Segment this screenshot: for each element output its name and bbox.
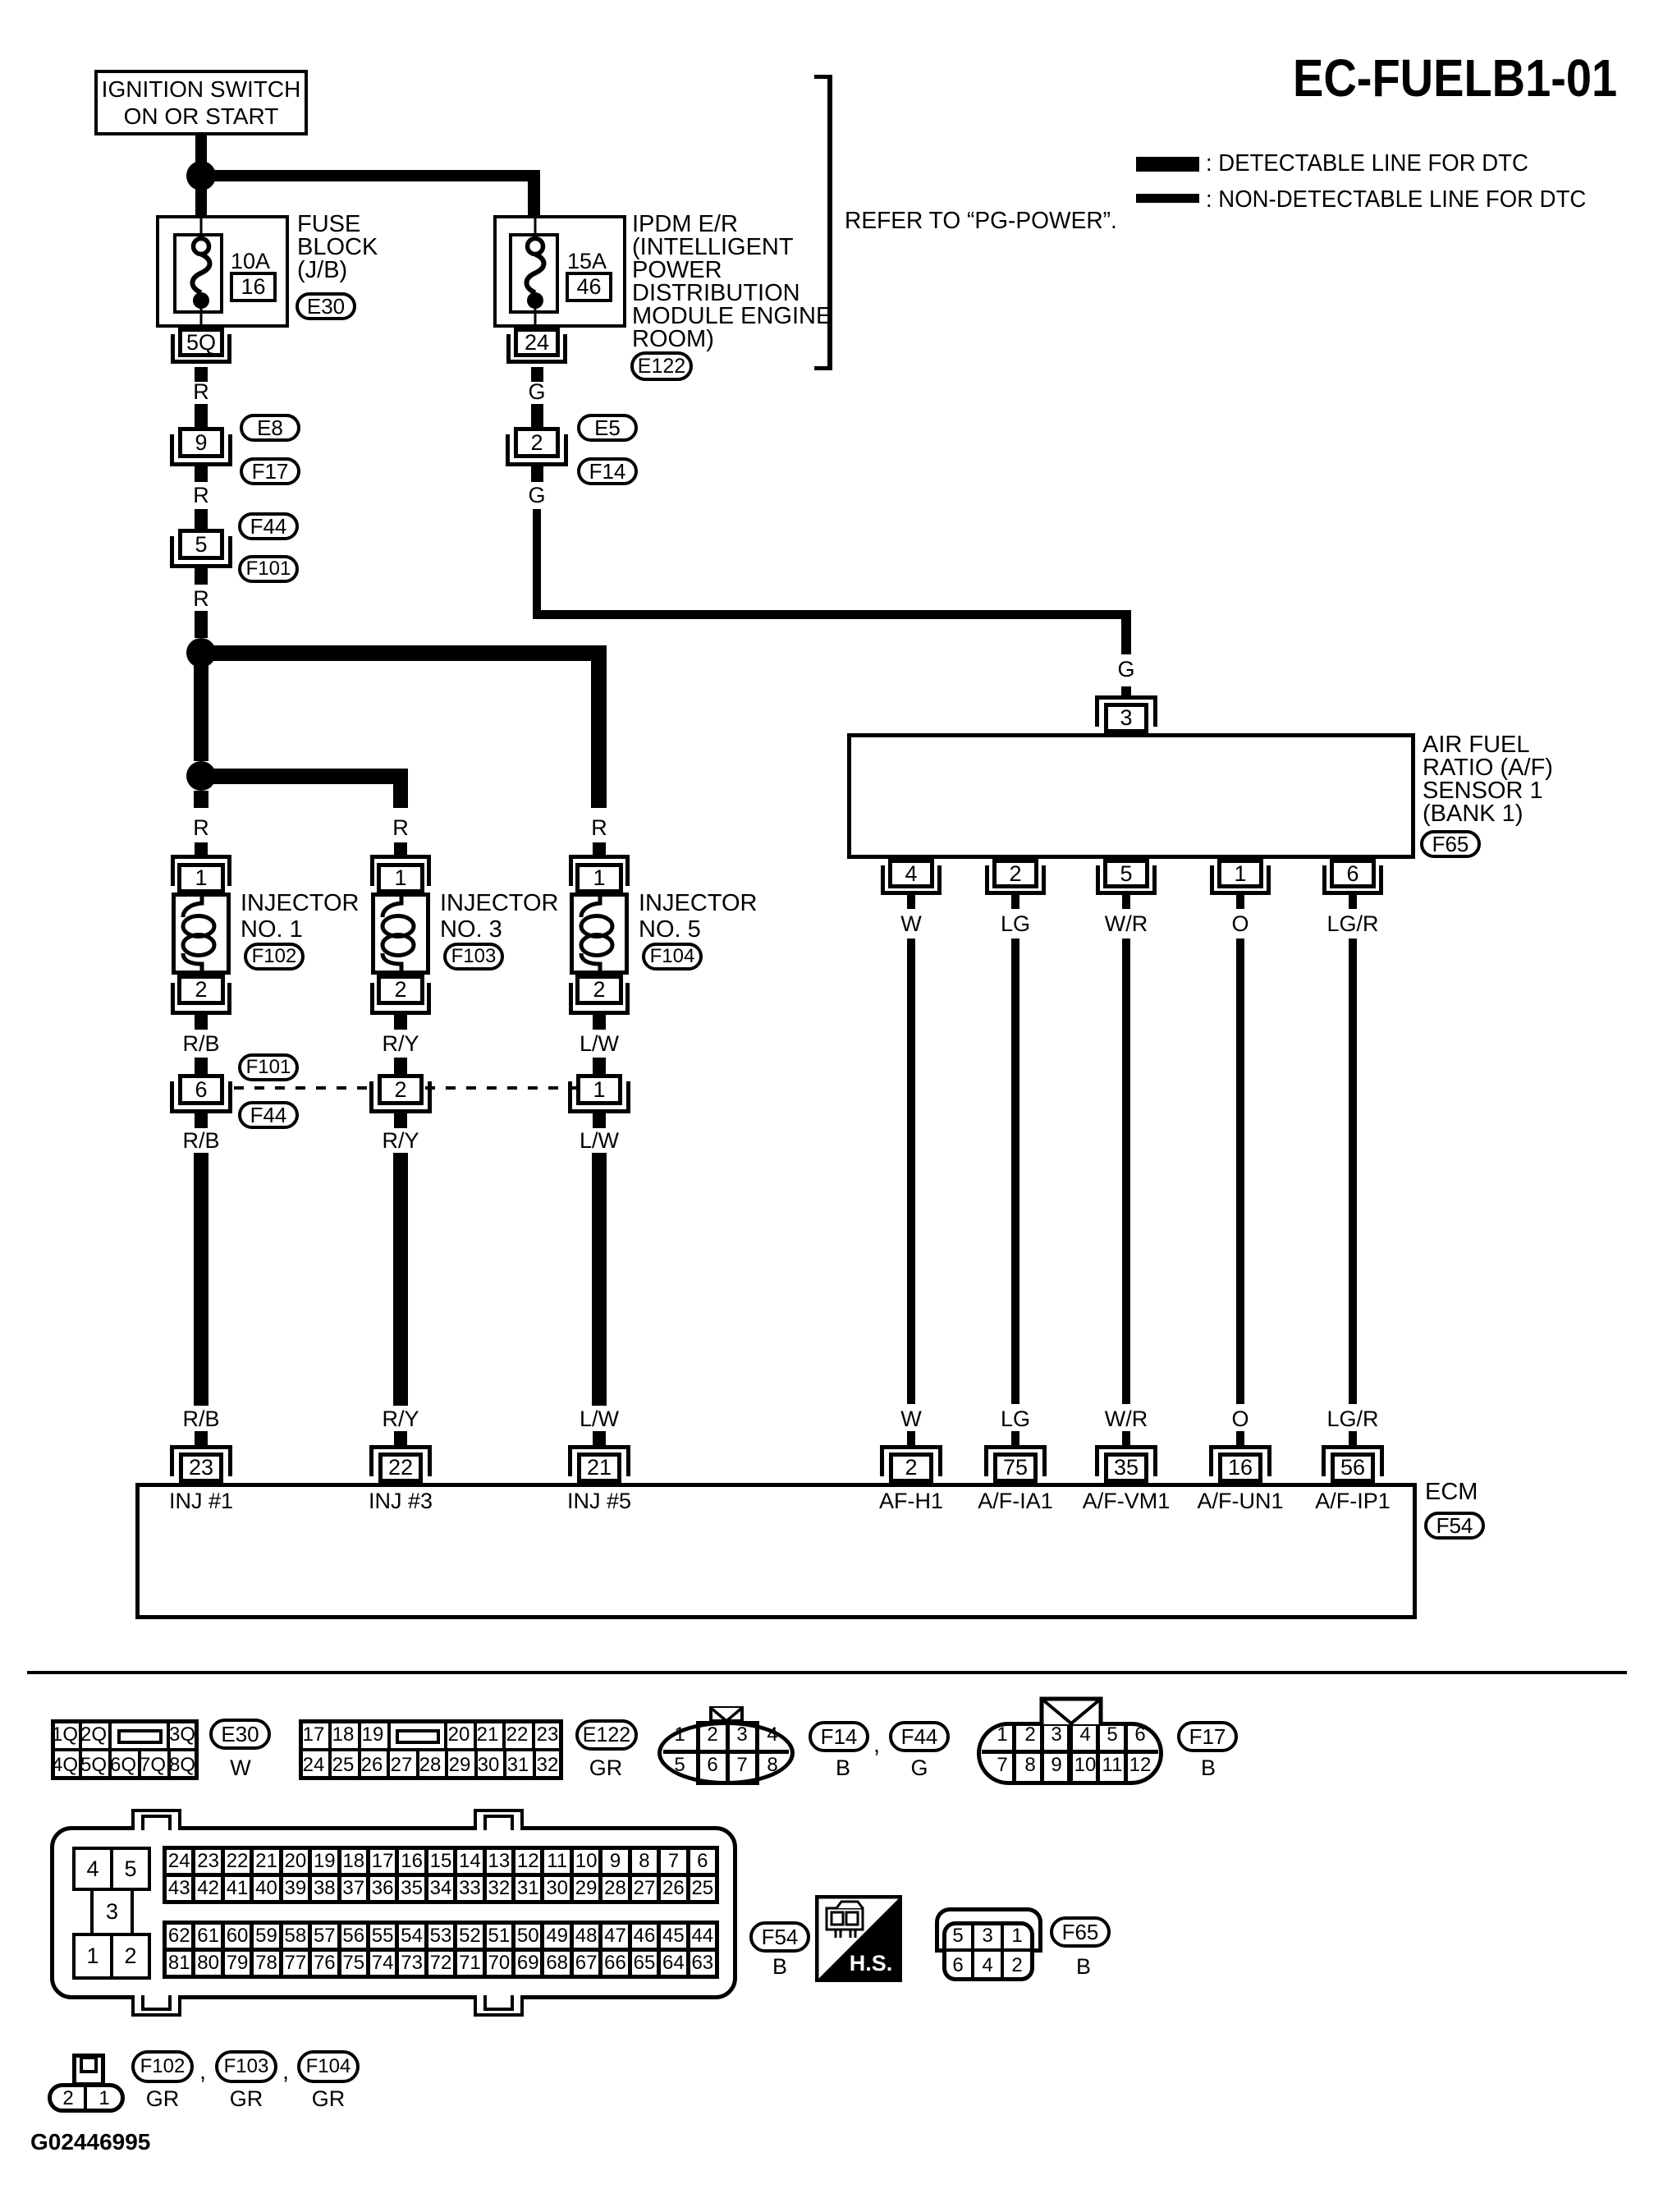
ECM pin 23: [170, 1445, 232, 1476]
legend non-detectable text: [1206, 187, 1586, 212]
wire: [1011, 1431, 1019, 1445]
connector ref F17 view: [1177, 1721, 1238, 1752]
wire: [1349, 895, 1357, 909]
label injector no. 3: [440, 890, 558, 943]
label W color: [230, 1755, 250, 1780]
ECM pin 16: [1209, 1445, 1271, 1476]
wire: [907, 1431, 915, 1445]
connector ref F14: [577, 457, 638, 485]
injector no. 1 bottom pin: [171, 983, 231, 1015]
air fuel ratio sensor box: [847, 733, 1415, 859]
wire: [907, 895, 915, 909]
sensor pin 2: [985, 865, 1046, 895]
wire R/Y long run: [393, 1153, 408, 1406]
wire: [1122, 895, 1130, 909]
wire L/W long run: [592, 1153, 607, 1406]
label R/Y 2: [382, 1128, 419, 1153]
label fuse block: [297, 213, 378, 282]
connector 5 F44/F101: [170, 536, 232, 568]
label injector no. 5: [639, 890, 757, 943]
F54 top tabs: [131, 1809, 181, 1830]
wire: [195, 842, 208, 858]
connector ref E30: [296, 292, 356, 320]
E122 fuse cell symbol: [396, 1729, 440, 1744]
wire: [195, 1015, 208, 1030]
connector ref F65: [1420, 830, 1481, 858]
label GR color: [146, 2086, 180, 2111]
sensor pin 6: [1322, 865, 1383, 895]
connector 24: [506, 334, 567, 364]
label A/F-IA1: [978, 1489, 1053, 1513]
label B color: [836, 1755, 850, 1780]
label O: [1231, 911, 1249, 936]
wire: [195, 509, 208, 529]
wire: [1236, 895, 1244, 909]
label LG: [1001, 911, 1030, 936]
connector ref F102 view: [131, 2050, 194, 2083]
label R 3: [193, 586, 209, 611]
F17 notch: [1039, 1696, 1103, 1726]
F14 notch: [709, 1706, 744, 1723]
wire: [593, 842, 606, 858]
wire: [1011, 895, 1019, 909]
sensor pin 3: [1095, 695, 1157, 727]
fuse symbol E30: [173, 215, 223, 328]
wire R/B long run: [194, 1153, 208, 1406]
connector ref F44 mid: [238, 1101, 299, 1129]
title EC-FUELB1-01: [1293, 52, 1617, 104]
injector no. 1 body: [172, 893, 231, 975]
injector connector view body: [48, 2083, 125, 2113]
label R/B 2: [182, 1128, 219, 1153]
wire: [394, 1113, 407, 1128]
connector ref F102: [244, 943, 305, 971]
connector ref F44: [238, 512, 299, 540]
ECM pin 56: [1322, 1445, 1384, 1476]
label air fuel sensor: [1423, 733, 1553, 825]
wire: [593, 1431, 606, 1445]
label A/F-UN1: [1197, 1489, 1283, 1513]
label R/Y: [382, 1031, 419, 1056]
wire: [195, 1113, 208, 1128]
connector ref F44 view: [889, 1721, 950, 1752]
wire node3 to injector3 column: [201, 769, 408, 784]
wire LG/R long run: [1349, 938, 1357, 1404]
wire W long run: [907, 938, 915, 1404]
wire: [195, 367, 208, 382]
connector ref E122: [630, 351, 693, 381]
F14/F44 connector view: [657, 1721, 795, 1785]
ECM pin 2: [880, 1445, 942, 1476]
label B color 3: [772, 1954, 787, 1979]
F65 connector view hood: [935, 1907, 1042, 1953]
wire node1 down to fuse block: [195, 187, 207, 215]
connector ref F104: [642, 943, 703, 971]
node junction 2: [186, 638, 216, 668]
injector no. 5 coil: [570, 893, 629, 975]
wire node2 to injector5 column: [201, 645, 607, 661]
label 15A: [567, 249, 607, 273]
connector ref E30 view: [209, 1719, 271, 1750]
F54 key cells: [72, 1847, 113, 1891]
wire: [394, 842, 407, 858]
svg-text:H.S.: H.S.: [850, 1951, 893, 1976]
connector ref F14 view: [809, 1721, 869, 1752]
label G 3: [1117, 657, 1134, 681]
connector ref F101 mid: [238, 1053, 299, 1081]
label R injector: [591, 815, 607, 840]
label GR color: [589, 1755, 623, 1780]
F54 pin grid lower: [163, 1921, 719, 1979]
connector 6 F101/F44 junction: [170, 1081, 232, 1113]
F54 pin grid upper: [163, 1846, 719, 1904]
connector ref F54 view: [749, 1921, 810, 1953]
wire node3 down: [194, 791, 208, 808]
ECM pin 75: [984, 1445, 1047, 1476]
legend detectable text: [1206, 151, 1528, 176]
ECM box: [135, 1483, 1417, 1619]
F65 connector view body: [942, 1921, 1034, 1981]
connector ref F103 view: [215, 2050, 277, 2083]
connector 2 F101/F44 junction: [369, 1081, 432, 1113]
wire: [394, 1015, 407, 1030]
injector no. 3 top pin bracket: [370, 855, 431, 886]
label W/R 2: [1105, 1407, 1148, 1431]
label B color 2: [1201, 1755, 1216, 1780]
injector no. 1 coil: [172, 893, 231, 975]
wire: [195, 1431, 208, 1445]
fuse number 16 box: [230, 272, 277, 302]
wire LG long run: [1011, 938, 1019, 1404]
fuse symbol IPDM: [509, 215, 559, 328]
label R: [193, 379, 209, 404]
wire: [195, 611, 208, 638]
label R/B 3: [182, 1407, 219, 1431]
label B color 4: [1076, 1954, 1091, 1979]
sensor pin 4: [881, 865, 942, 895]
connector ref E122 view: [575, 1719, 638, 1751]
connector 9 E8/F17: [170, 434, 232, 466]
bracket ] for PG-POWER reference: [827, 75, 832, 370]
wire G long down and right to sensor: [533, 509, 541, 619]
connector ref F17: [240, 457, 300, 485]
wire: [195, 568, 208, 585]
label AF-H1: [879, 1489, 943, 1513]
connector ref F104 view: [297, 2050, 360, 2083]
label R/Y 3: [382, 1407, 419, 1431]
fuse 15A symbol box: [509, 233, 559, 314]
label L/W 3: [580, 1407, 619, 1431]
fuse 10A symbol box: [173, 233, 223, 314]
wire: [195, 404, 208, 427]
label ECM: [1425, 1480, 1478, 1504]
wire: [531, 367, 543, 382]
label L/W 2: [580, 1128, 619, 1153]
wire: [531, 404, 543, 427]
ECM pin 22: [369, 1445, 432, 1476]
refer to PG-POWER text: [845, 209, 1117, 233]
injector no. 1 top pin bracket: [171, 855, 231, 886]
F17 connector view: [977, 1722, 1163, 1785]
connector ref F101: [238, 555, 299, 583]
legend non-detectable line bar: [1136, 194, 1199, 203]
wire: [593, 1113, 606, 1128]
ignition switch box: [94, 70, 308, 135]
wire: [593, 1015, 606, 1030]
F54 ECM connector view outline: [50, 1826, 737, 1999]
injector no. 5 bottom pin: [569, 983, 630, 1015]
ECM pin 35: [1095, 1445, 1157, 1476]
label W: [900, 911, 921, 936]
label INJ #5: [567, 1489, 631, 1513]
connector 2 E5/F14: [506, 434, 568, 466]
label LG 2: [1001, 1407, 1030, 1431]
node junction 1: [186, 161, 216, 190]
wire O long run: [1236, 938, 1244, 1404]
H.S. logo: [815, 1895, 902, 1982]
sensor pin 1: [1210, 865, 1271, 895]
injector no. 5 top pin bracket: [569, 855, 630, 886]
wire: [531, 466, 543, 482]
wire node2 down to node3: [194, 661, 208, 761]
separator line: [27, 1671, 1627, 1674]
label GR color: [230, 2086, 263, 2111]
label LG/R 2: [1326, 1407, 1378, 1431]
injector no. 3 bottom pin: [370, 983, 431, 1015]
connector ref F54: [1424, 1512, 1485, 1540]
sensor pin 5: [1096, 865, 1157, 895]
label injector no. 1: [241, 890, 359, 943]
dashed link between junction connectors: [234, 1086, 368, 1090]
label GR color: [312, 2086, 346, 2111]
injector no. 5 body: [570, 893, 629, 975]
wire W/R long run: [1122, 938, 1130, 1404]
label R injector: [392, 815, 409, 840]
E30 fuse cell symbol: [117, 1729, 163, 1744]
wire: [1236, 1431, 1244, 1445]
label R/B: [182, 1031, 219, 1056]
fuse number 46 box: [566, 272, 612, 302]
E122 connector view grid: [299, 1719, 563, 1780]
connector ref F65 view: [1050, 1916, 1111, 1948]
wire: [195, 466, 208, 482]
E30 connector view grid: [51, 1719, 199, 1780]
label W 2: [900, 1407, 921, 1431]
label G color: [910, 1755, 928, 1780]
label O 2: [1231, 1407, 1249, 1431]
wire: [394, 1431, 407, 1445]
F54 bottom tabs: [131, 1995, 181, 2017]
label G02446995: [30, 2130, 150, 2155]
label R 2: [193, 483, 209, 507]
injector connector view tab: [72, 2054, 105, 2086]
label INJ #1: [169, 1489, 233, 1513]
connector ref E5: [577, 414, 638, 442]
label A/F-VM1: [1083, 1489, 1171, 1513]
injector no. 3 body: [371, 893, 430, 975]
wire node1 horizontal to IPDM: [201, 170, 539, 181]
wire: [1349, 1431, 1357, 1445]
wire: [195, 135, 207, 164]
connector 1 F101/F44 junction: [568, 1081, 630, 1113]
IPDM E/R outer box: [493, 215, 626, 328]
ECM pin 21: [568, 1445, 630, 1476]
label IPDM: [632, 213, 832, 351]
node junction 3: [186, 761, 216, 791]
connector ref E8: [240, 414, 300, 442]
label INJ #3: [369, 1489, 433, 1513]
label A/F-IP1: [1315, 1489, 1391, 1513]
connector ref F103: [443, 943, 504, 971]
label G 2: [528, 483, 545, 507]
label R injector: [193, 815, 209, 840]
label G: [528, 379, 545, 404]
wire: [1122, 1431, 1130, 1445]
legend detectable line bar: [1136, 157, 1199, 172]
label L/W: [580, 1031, 619, 1056]
label 10A: [231, 249, 270, 273]
fuse block E30 outer box: [156, 215, 289, 328]
injector no. 3 coil: [371, 893, 430, 975]
label LG/R: [1326, 911, 1378, 936]
label W/R: [1105, 911, 1148, 936]
connector 5Q: [171, 334, 231, 364]
